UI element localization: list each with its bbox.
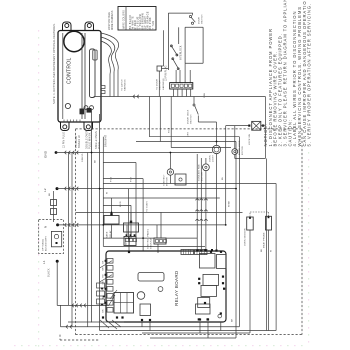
wire <box>99 114 101 331</box>
wire <box>175 70 177 83</box>
relay RY5 <box>198 298 210 308</box>
wire <box>117 70 119 97</box>
wire <box>157 244 159 253</box>
wire (L1 run) <box>57 304 109 306</box>
wire <box>169 175 171 183</box>
node <box>204 302 206 304</box>
wire <box>128 189 130 239</box>
svg-text:GROUND: GROUND <box>151 238 153 249</box>
wire <box>158 71 160 97</box>
svg-text:GRN: GRN <box>204 92 206 98</box>
cabinet boundary (dashed) <box>75 129 77 335</box>
svg-text:BOARD J2: BOARD J2 <box>78 135 81 148</box>
wire <box>103 245 205 247</box>
wire <box>184 63 186 82</box>
wire <box>130 205 132 221</box>
wire <box>91 110 93 323</box>
cooling fan motor M2 <box>203 164 210 171</box>
node <box>198 282 200 284</box>
node <box>220 251 222 253</box>
wire <box>141 322 143 327</box>
svg-text:CONTROL PANEL: CONTROL PANEL <box>147 228 150 249</box>
wire <box>177 89 179 97</box>
wire <box>265 159 267 331</box>
wire <box>126 225 128 235</box>
door lock motor M1 <box>232 149 238 155</box>
node <box>141 319 143 321</box>
wire <box>234 126 236 149</box>
svg-text:BK: BK <box>261 248 263 252</box>
wire <box>179 70 181 83</box>
connector marks <box>133 95 135 99</box>
node <box>149 319 151 321</box>
connector marks <box>72 304 74 308</box>
wire <box>142 179 144 251</box>
wire <box>111 198 113 214</box>
svg-text:OVEN SENSOR: OVEN SENSOR <box>245 228 247 246</box>
svg-text:L1: L1 <box>42 260 46 264</box>
node N <box>56 223 59 226</box>
wire <box>102 137 104 247</box>
svg-text:5. VERIFY PROPER OPERATION AFT: 5. VERIFY PROPER OPERATION AFTER SERVICI… <box>307 3 312 147</box>
wire <box>200 158 202 251</box>
door lock relay K1 <box>252 121 261 130</box>
svg-text:PLUG: PLUG <box>98 142 101 149</box>
indicator hole <box>158 287 163 292</box>
svg-text:GRN/YL: GRN/YL <box>82 152 84 162</box>
board trace <box>106 320 117 329</box>
wire <box>181 89 183 97</box>
node <box>91 152 93 154</box>
node <box>235 188 237 190</box>
wire <box>142 332 250 334</box>
relay RY4 <box>201 285 217 296</box>
wire <box>185 26 203 28</box>
node <box>116 316 118 318</box>
svg-text:BK BLACK: BK BLACK <box>129 14 132 29</box>
node <box>207 318 209 320</box>
node <box>216 141 218 143</box>
node <box>248 125 250 127</box>
wire <box>162 65 164 67</box>
svg-text:BLACK: BLACK <box>48 268 51 277</box>
wire <box>226 125 249 127</box>
accessory boundary (dashed) <box>39 219 64 253</box>
low-voltage ribbon cable <box>101 41 111 74</box>
wire <box>225 126 227 225</box>
wire <box>150 337 236 339</box>
capacitor C1 <box>140 304 151 316</box>
wire <box>103 162 136 164</box>
control board U1 outline <box>58 31 101 123</box>
board trace <box>109 295 115 305</box>
node <box>198 318 200 320</box>
node <box>199 318 201 320</box>
cabinet boundary (dashed) <box>76 128 303 130</box>
wire <box>169 153 171 169</box>
wire <box>68 321 124 323</box>
svg-text:BAKE: BAKE <box>106 231 109 238</box>
node <box>220 312 222 314</box>
svg-text:MOTOR: MOTOR <box>202 172 204 181</box>
svg-text:BR: BR <box>232 318 234 322</box>
svg-text:NOTE: 1. DOTTED LINES REPRESEN: NOTE: 1. DOTTED LINES REPRESENT OPTIONAL… <box>52 23 56 104</box>
node <box>121 316 123 318</box>
wire <box>113 72 115 97</box>
relay RY6 <box>196 304 211 314</box>
wire <box>130 212 132 234</box>
svg-text:BK: BK <box>103 260 105 263</box>
wire <box>148 97 150 137</box>
svg-text:TO CONV: TO CONV <box>147 201 149 212</box>
node <box>102 316 104 318</box>
wire <box>130 232 132 238</box>
bake relay K2 <box>104 216 119 225</box>
wire <box>156 225 158 238</box>
wire <box>87 153 89 327</box>
convection motor M3 <box>167 169 173 175</box>
node <box>142 237 144 239</box>
resistor network RN1 <box>138 273 164 282</box>
connector marks <box>195 199 199 201</box>
node GND <box>55 151 58 154</box>
door harness connector <box>157 66 162 71</box>
svg-text:WIRE COLORS: WIRE COLORS <box>123 10 126 29</box>
wire <box>235 158 266 160</box>
svg-text:L2: L2 <box>43 188 47 192</box>
relay board outline <box>106 251 226 322</box>
wire <box>68 153 70 306</box>
wire <box>149 322 151 331</box>
wire <box>103 204 131 206</box>
wire <box>149 136 239 138</box>
latch switch SW2 <box>171 45 177 55</box>
svg-text:ACCESSORY: ACCESSORY <box>45 236 48 251</box>
connector J3 <box>124 237 136 246</box>
node <box>223 288 225 290</box>
node <box>102 224 104 226</box>
meat probe RT2 <box>266 216 272 230</box>
svg-text:OVEN: OVEN <box>210 155 212 162</box>
control terminal hole <box>65 103 70 108</box>
wire <box>205 171 207 251</box>
wire <box>216 154 218 251</box>
svg-text:LOCK SW: LOCK SW <box>249 133 251 145</box>
indicator <box>218 314 222 318</box>
convection relay K5 <box>175 174 186 185</box>
harness plug P4 <box>97 283 105 288</box>
tab hole <box>86 125 90 129</box>
node <box>197 249 199 251</box>
board connector P3 pins <box>107 259 113 264</box>
wire <box>198 121 216 123</box>
svg-text:BK/R: BK/R <box>120 201 122 207</box>
svg-text:BR: BR <box>103 309 105 312</box>
node <box>211 249 213 251</box>
wire <box>216 122 218 145</box>
tab hole <box>63 125 67 129</box>
wire <box>163 30 165 66</box>
control clock window <box>64 31 84 51</box>
wire <box>167 13 169 70</box>
wire <box>185 62 203 64</box>
wire <box>170 97 172 148</box>
relay RY2 <box>217 255 227 269</box>
wire <box>171 147 231 149</box>
svg-text:GND: GND <box>44 150 48 158</box>
wire <box>162 68 169 70</box>
node <box>207 318 209 320</box>
node <box>111 212 113 214</box>
node L2 <box>56 187 59 190</box>
svg-text:RELAY BOARD: RELAY BOARD <box>174 270 179 306</box>
svg-text:SWITCH: SWITCH <box>202 14 204 24</box>
12-pin edge ticks <box>63 120 65 123</box>
optional jumper (dashed) <box>249 212 251 217</box>
wire <box>190 89 192 97</box>
wire <box>264 126 266 159</box>
svg-text:OPTIONAL: OPTIONAL <box>42 238 45 251</box>
svg-text:PLUG WH/BK: PLUG WH/BK <box>89 132 92 149</box>
cabinet boundary (dashed) <box>301 129 303 335</box>
wire <box>60 305 62 326</box>
wire <box>76 211 243 213</box>
cabinet boundary (dashed) <box>76 334 303 336</box>
svg-text:OR ORANGE: OR ORANGE <box>147 11 150 29</box>
node <box>225 224 227 226</box>
wire <box>100 330 277 332</box>
control terminal hole <box>90 106 94 110</box>
node <box>215 250 217 252</box>
node <box>196 250 198 252</box>
relay RY3 <box>203 274 219 285</box>
svg-text:12 PIN PLUG: 12 PIN PLUG <box>63 132 66 148</box>
unlock switch SW3 <box>172 58 178 69</box>
svg-text:BK: BK <box>49 192 51 196</box>
svg-text:INTERLOCK: INTERLOCK <box>181 45 183 60</box>
wire <box>268 230 270 331</box>
board connector J1 <box>181 250 194 255</box>
svg-text:MOTOR: MOTOR <box>167 177 169 186</box>
node <box>170 152 172 154</box>
svg-text:T TAN: T TAN <box>152 21 155 30</box>
wire <box>103 237 197 239</box>
connector marks <box>66 325 68 329</box>
wire <box>196 154 198 251</box>
svg-text:HARNESS: HARNESS <box>162 78 165 90</box>
control terminal block <box>87 108 92 113</box>
svg-text:RD: RD <box>103 274 105 278</box>
node <box>198 278 200 280</box>
wire <box>128 238 130 251</box>
svg-text:BU: BU <box>222 176 224 180</box>
low-voltage ribbon cable <box>101 37 115 72</box>
control connector rail <box>84 33 86 119</box>
latch interlock <box>178 27 180 44</box>
wire <box>103 178 143 180</box>
svg-text:WH: WH <box>103 266 105 270</box>
connector marks <box>65 187 67 191</box>
svg-text:HARNESS: HARNESS <box>124 79 127 91</box>
svg-text:COOLING FAN: COOLING FAN <box>198 164 201 181</box>
control edge connector <box>101 86 105 89</box>
relay RY1 <box>200 254 216 269</box>
svg-text:DOOR UNLK: DOOR UNLK <box>188 109 190 124</box>
wire <box>189 70 191 83</box>
board trace <box>100 275 112 282</box>
tab hole <box>65 24 69 28</box>
wire (L1 down) <box>56 261 58 305</box>
ribbon connector P1 <box>90 49 96 98</box>
wire <box>160 212 162 238</box>
wire <box>185 89 187 97</box>
svg-text:GY GRAY: GY GRAY <box>144 16 147 29</box>
control terminal hole <box>84 106 88 110</box>
compartment boundary (dashed) <box>59 335 61 340</box>
wire <box>261 125 266 127</box>
harness plug P5 <box>97 291 105 296</box>
wire <box>168 12 192 14</box>
wire <box>159 97 161 142</box>
oven light DS1 <box>212 145 220 153</box>
svg-text:DOOR: DOOR <box>199 17 201 24</box>
door switch SW1 <box>189 15 191 17</box>
svg-text:CONTROL: CONTROL <box>67 57 73 84</box>
svg-text:N: N <box>44 226 48 228</box>
control connector rail <box>81 33 83 119</box>
wire <box>71 153 73 327</box>
svg-text:SWITCH: SWITCH <box>160 80 162 90</box>
door unlock switch SW4 <box>193 97 195 105</box>
svg-text:WIRE HARNESS: WIRE HARNESS <box>111 10 114 30</box>
mounting tab top-left <box>63 22 72 31</box>
connector marks <box>65 223 67 227</box>
transformer T1 <box>137 292 145 300</box>
svg-text:MOTOR: MOTOR <box>242 146 244 155</box>
svg-text:MEAT PROBE: MEAT PROBE <box>263 232 266 248</box>
svg-text:LIGHT: LIGHT <box>213 154 215 162</box>
wire <box>238 137 240 327</box>
node <box>200 250 202 252</box>
node <box>222 276 224 278</box>
svg-text:GRY: GRY <box>188 131 190 137</box>
wire <box>109 74 111 97</box>
board connector J2 <box>195 250 208 255</box>
control board inner edge <box>62 33 64 119</box>
tab hole <box>87 24 91 28</box>
svg-text:CONVECT: CONVECT <box>164 174 166 186</box>
wire <box>235 142 237 339</box>
wire <box>61 326 240 328</box>
connector tab <box>93 50 97 60</box>
latch terminal strip P2 <box>170 83 193 89</box>
svg-text:SWITCH: SWITCH <box>191 114 193 124</box>
wire <box>103 197 220 199</box>
node <box>262 125 264 127</box>
wire <box>136 141 236 143</box>
svg-text:P1-7: P1-7 <box>131 176 133 182</box>
node <box>222 282 224 284</box>
connector J4 <box>154 238 166 244</box>
svg-text:12 PIN PLUG: 12 PIN PLUG <box>166 65 168 81</box>
relay grid K7 <box>114 293 134 314</box>
wire <box>103 183 276 185</box>
oven sensor RT1 <box>247 217 254 230</box>
svg-text:P2-3: P2-3 <box>169 127 171 133</box>
wire <box>135 163 137 239</box>
wire (ground bus) <box>56 152 212 154</box>
node <box>99 188 101 190</box>
node <box>204 249 206 251</box>
wire <box>184 27 186 63</box>
wire <box>264 97 266 126</box>
svg-text:P1-5: P1-5 <box>111 176 113 182</box>
low-voltage ribbon cable <box>101 33 119 70</box>
wire (neutral bus) <box>58 224 226 226</box>
node <box>205 250 207 252</box>
harness plug P6 <box>97 299 105 304</box>
wire <box>173 89 175 97</box>
svg-text:BK: BK <box>95 159 97 163</box>
wire <box>207 322 209 338</box>
wire <box>249 230 251 333</box>
fuse link F1 <box>53 191 55 222</box>
broil relay K3 <box>124 223 139 232</box>
wire <box>234 155 236 159</box>
svg-text:TO DOOR: TO DOOR <box>157 79 159 90</box>
svg-text:BRN/WHT: BRN/WHT <box>104 134 107 147</box>
svg-text:LOW VOLTAGE: LOW VOLTAGE <box>108 12 111 30</box>
svg-text:TO LATCH: TO LATCH <box>121 79 124 91</box>
control terminal block <box>80 109 85 115</box>
wire color legend <box>118 7 156 31</box>
node <box>128 251 130 253</box>
node <box>128 237 130 239</box>
wire <box>220 322 222 331</box>
mounting tab top-right <box>85 22 94 31</box>
compartment boundary (dashed) <box>60 339 99 341</box>
wire <box>275 184 277 331</box>
accessory outlet <box>51 231 61 246</box>
mounting tab bottom-left <box>61 122 70 131</box>
wire <box>94 96 266 98</box>
wire <box>111 224 113 238</box>
board trace <box>100 261 112 268</box>
connector marks <box>65 151 67 155</box>
svg-text:W/BK: W/BK <box>229 200 231 207</box>
wire (L2 bus) <box>57 188 236 190</box>
wire <box>199 322 201 333</box>
mounting tab bottom-right <box>84 122 93 131</box>
wire <box>202 27 204 63</box>
node L1 <box>56 260 59 263</box>
node <box>210 251 212 253</box>
